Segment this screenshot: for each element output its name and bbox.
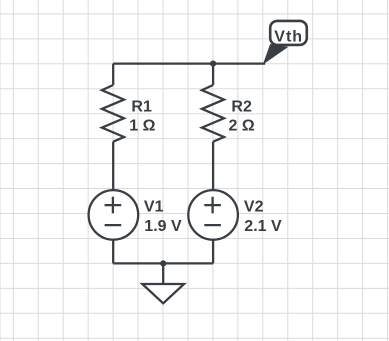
wire: R1 top lead	[112, 64, 114, 85]
resistor R2	[202, 85, 224, 142]
wire: R2 top lead	[212, 64, 214, 85]
voltage source V2	[188, 190, 238, 240]
node: top junction	[210, 61, 216, 67]
wire: R1 to V1	[112, 142, 114, 190]
voltage source V1	[89, 190, 139, 240]
wire: ground stub	[162, 263, 164, 284]
svg-text:1.9 V: 1.9 V	[144, 218, 182, 235]
svg-text:V1: V1	[144, 198, 164, 215]
node: ground junction	[160, 260, 166, 266]
svg-text:V2: V2	[244, 198, 264, 215]
wire: bottom rail	[113, 262, 213, 264]
svg-text:Vth: Vth	[274, 29, 303, 46]
svg-text:2 Ω: 2 Ω	[229, 118, 255, 135]
flag box Vth	[270, 21, 307, 45]
svg-text:R2: R2	[231, 99, 252, 116]
svg-text:R1: R1	[131, 99, 152, 116]
svg-text:1 Ω: 1 Ω	[129, 118, 155, 135]
flag pointer for Vth	[264, 45, 287, 64]
svg-text:2.1 V: 2.1 V	[244, 218, 282, 235]
wire: R2 to V2	[212, 142, 214, 190]
ground	[142, 284, 184, 303]
wire: top rail from left branch to Vth tap	[113, 62, 265, 64]
wire: V1 to bottom rail	[112, 240, 114, 264]
resistor R1	[102, 85, 124, 142]
viewport left edge line	[0, 0, 2, 341]
wire: V2 to bottom rail	[212, 240, 214, 264]
